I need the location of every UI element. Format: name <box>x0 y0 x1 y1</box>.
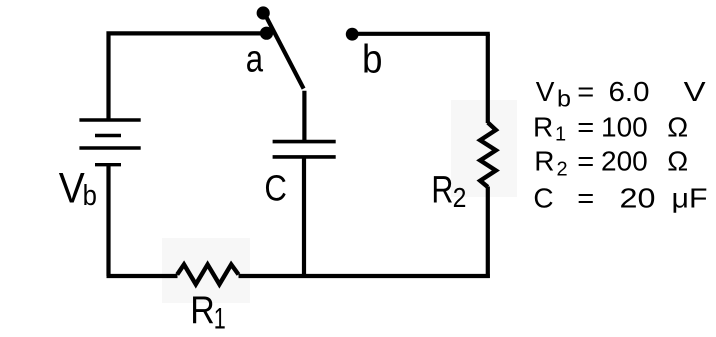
wire left vertical (battery bottom to bottom rail) <box>106 165 110 276</box>
wire bottom-left (to R1) <box>107 274 178 278</box>
switch blade end dot <box>257 6 270 19</box>
highlight box behind R1 <box>162 238 250 303</box>
capacitor C <box>273 142 336 157</box>
svg-text:b: b <box>83 180 97 212</box>
wire switch pole to capacitor <box>302 91 306 140</box>
wire right rail lower <box>486 187 490 279</box>
svg-text:C: C <box>264 167 287 208</box>
svg-text:1: 1 <box>214 302 226 335</box>
resistor R2 <box>480 123 496 188</box>
resistor R1 <box>177 265 238 285</box>
switch blade <box>265 14 304 89</box>
wire capacitor to bottom rail <box>302 158 306 276</box>
wire bottom-right (R1 to right rail) <box>239 274 490 278</box>
battery Vb <box>79 120 140 165</box>
highlight box behind R2 <box>451 100 517 197</box>
wire top-left (battery top to contact a) <box>109 33 267 120</box>
svg-text:V: V <box>59 165 86 212</box>
svg-text:R: R <box>431 169 453 211</box>
svg-text:R: R <box>190 289 215 332</box>
svg-text:2: 2 <box>453 182 467 213</box>
contact a dot <box>260 27 273 40</box>
wire contact b to right rail <box>352 32 490 36</box>
svg-text:b: b <box>362 37 383 81</box>
svg-text:a: a <box>246 39 264 81</box>
wire right rail upper <box>486 34 490 123</box>
contact b dot <box>346 28 359 41</box>
